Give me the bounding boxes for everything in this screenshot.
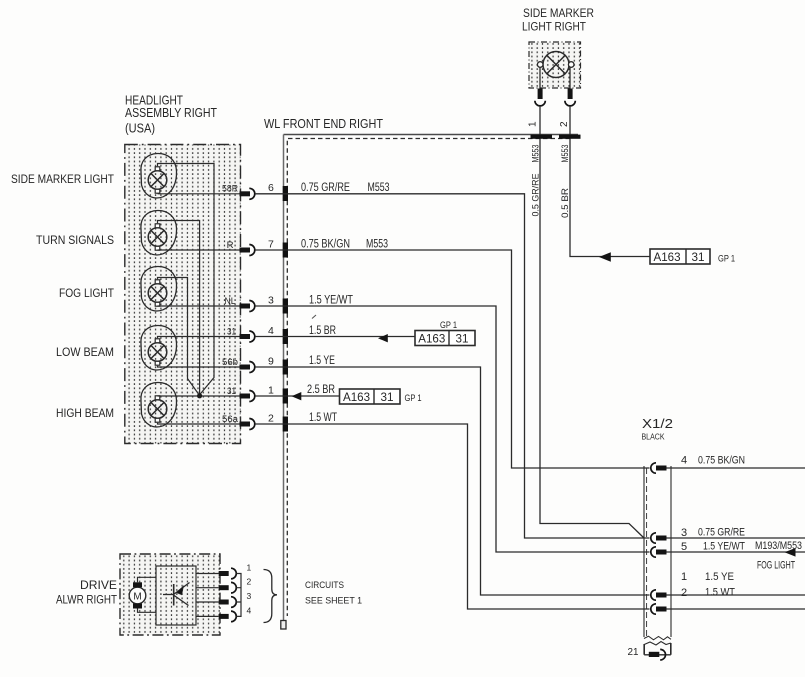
svg-text:WL FRONT END RIGHT: WL FRONT END RIGHT: [264, 117, 383, 131]
wire side marker terminal 1 down: [539, 68, 541, 90]
svg-text:NL: NL: [225, 296, 237, 307]
motor M1: [129, 582, 146, 608]
wire lamp1 top to internal bus: [158, 164, 215, 395]
side marker bulb: [537, 52, 574, 78]
wire side marker terminal 2 down: [569, 68, 571, 90]
svg-text:1: 1: [528, 121, 539, 127]
svg-text:4: 4: [247, 605, 252, 615]
wire X1/2 pin4 out: [667, 467, 805, 469]
drive pin 3 connector: [219, 597, 237, 608]
svg-text:M553: M553: [368, 182, 390, 194]
pin 56a connector: [240, 419, 255, 430]
wire 0.75 GR/RE row6 to X1/2 pin3: [255, 194, 650, 538]
svg-text:1.5 YE: 1.5 YE: [705, 571, 734, 583]
pin R connector: [240, 245, 255, 256]
svg-text:ALWR RIGHT: ALWR RIGHT: [56, 593, 118, 607]
wire drive pin 4: [196, 615, 219, 617]
splice tick M553 wire2: [559, 135, 581, 139]
lamp E2 turn signal bulb: [148, 224, 167, 250]
arrow on row1 wire: [292, 392, 302, 400]
svg-text:1.5 BR: 1.5 BR: [309, 325, 336, 337]
lamp E5 high beam reflector blob: [141, 382, 177, 426]
svg-text:1: 1: [247, 563, 252, 573]
wire X1/2 pin5 out: [667, 551, 805, 553]
lamp E4 low beam reflector blob: [141, 325, 177, 369]
svg-text:X1/2: X1/2: [642, 416, 673, 431]
svg-text:M553: M553: [531, 145, 542, 163]
svg-text:2: 2: [681, 587, 687, 599]
wire lamp4 bottom to pin 56b: [158, 366, 240, 367]
svg-text:3: 3: [681, 527, 687, 539]
svg-text:2: 2: [247, 577, 252, 587]
jumper bracket joining drive pins: [236, 574, 241, 617]
transistor symbol: [163, 583, 190, 606]
X1/2 pin 21 socket: [649, 649, 666, 660]
wire drive pin 2: [196, 587, 219, 589]
svg-text:LOW BEAM: LOW BEAM: [56, 345, 114, 359]
svg-text:1: 1: [681, 571, 687, 583]
svg-text:0.75 BK/GN: 0.75 BK/GN: [698, 455, 745, 467]
arrow on 0.5 BR wire: [599, 252, 611, 262]
svg-text:CIRCUITS: CIRCUITS: [305, 580, 344, 591]
svg-text:58R: 58R: [222, 184, 238, 195]
wire lamp3 bottom to pin NL: [158, 305, 240, 307]
pin 31b connector: [240, 391, 255, 402]
pin NL connector: [240, 301, 255, 312]
svg-text:GP 1: GP 1: [440, 320, 457, 331]
lamp E1 side marker reflector blob: [141, 153, 177, 197]
svg-text:31: 31: [456, 334, 469, 346]
svg-text:1.5 WT: 1.5 WT: [309, 412, 337, 424]
svg-text:FOG LIGHT: FOG LIGHT: [757, 560, 795, 572]
X1/2 pin 2 socket: [651, 604, 667, 614]
svg-text:56a: 56a: [222, 414, 239, 425]
svg-text:31: 31: [227, 327, 236, 338]
X1/2 pin 4 socket: [651, 463, 667, 473]
svg-text:9: 9: [268, 356, 274, 368]
ground box A163 31 row4: [415, 331, 475, 346]
svg-text:31: 31: [692, 252, 705, 264]
svg-text:3: 3: [268, 295, 274, 307]
wire 0.75 BK/GN row7 to X1/2 pin4: [255, 250, 650, 468]
X1/2 pin labels: [681, 455, 802, 600]
pin labels 58R R NL 31 56b 31 56a: [222, 184, 239, 426]
svg-text:HIGH BEAM: HIGH BEAM: [56, 406, 114, 420]
drive pin 4 connector: [219, 611, 237, 622]
connector X1/2 body: [644, 466, 671, 640]
svg-text:R: R: [227, 240, 234, 251]
svg-text:1.5 YE/WT: 1.5 YE/WT: [703, 541, 745, 553]
splice tick M553 wire1: [531, 135, 553, 139]
X1/2 pin 1 socket: [651, 590, 667, 600]
connector X1/2 title: [642, 416, 674, 442]
drive unit box: [120, 554, 220, 635]
svg-text:TURN SIGNALS: TURN SIGNALS: [36, 233, 114, 247]
wire lamp4 top to pin 31: [158, 337, 240, 339]
side marker pin 1 connector: [535, 89, 545, 106]
svg-text:5: 5: [681, 541, 687, 553]
svg-text:1.5 WT: 1.5 WT: [705, 587, 735, 599]
ground box A163 31 row1: [340, 389, 401, 404]
wire lamp3 top to internal bus: [158, 278, 200, 396]
lamp E5 high beam bulb: [148, 396, 167, 422]
svg-text:M193/M553: M193/M553: [755, 540, 802, 552]
circuits note text: [305, 580, 362, 607]
svg-text:31: 31: [381, 392, 394, 404]
wire motor top to control unit: [138, 577, 157, 582]
pin 58R connector: [240, 188, 255, 199]
svg-text:A163: A163: [418, 334, 445, 346]
svg-text:2: 2: [268, 413, 274, 425]
side marker pin 2 connector: [565, 89, 575, 106]
pin 56b connector: [240, 362, 255, 373]
drive pin numbers: [247, 563, 252, 616]
ground box A163 31 side marker: [650, 249, 710, 264]
svg-text:2: 2: [559, 121, 570, 127]
side marker box: [529, 42, 581, 88]
wire X1/2 pin3 out: [667, 537, 805, 539]
svg-text:A163: A163: [654, 252, 681, 264]
wire lamp5 top junction line to pin 31: [158, 395, 240, 397]
svg-text:SIDE MARKER: SIDE MARKER: [523, 8, 594, 20]
svg-text:A163: A163: [343, 392, 370, 404]
wire drive pin 3: [196, 601, 219, 603]
wire X1/2 pin2 out: [667, 608, 805, 610]
svg-text:7: 7: [268, 239, 274, 251]
arrow on row4 wire: [378, 334, 388, 342]
lamp E1 side marker bulb: [148, 167, 167, 193]
junction dot: [197, 393, 202, 398]
wire lamp1 bottom to pin 58R: [158, 193, 240, 195]
wire 1.5 YE/WT row3 to X1/2 pin5: [255, 306, 650, 552]
svg-text:M553: M553: [366, 238, 388, 250]
svg-text:SEE SHEET 1: SEE SHEET 1: [305, 596, 362, 607]
svg-text:4: 4: [268, 325, 274, 337]
drive pin 2 connector: [219, 582, 237, 593]
svg-text:DRIVE: DRIVE: [80, 578, 117, 592]
headlight title text: [125, 94, 217, 136]
svg-text:3: 3: [247, 591, 252, 601]
svg-text:(USA): (USA): [125, 122, 155, 136]
wire lamp5 bottom to pin 56a: [158, 423, 240, 424]
svg-text:M553: M553: [560, 145, 571, 163]
side marker light right title: [522, 8, 594, 34]
svg-text:SIDE MARKER LIGHT: SIDE MARKER LIGHT: [11, 172, 115, 186]
wire 2.5 BR row1 to ground: [255, 395, 340, 397]
svg-text:31: 31: [227, 386, 236, 397]
wire label 0.75 BK/GN M553: [301, 238, 388, 250]
svg-text:6: 6: [268, 182, 274, 194]
connector X1/2 lower fragment: [644, 642, 671, 655]
lamp E3 fog light reflector blob: [141, 266, 177, 310]
svg-text:FOG LIGHT: FOG LIGHT: [59, 286, 115, 300]
lamp E3 fog light bulb: [148, 280, 167, 306]
X1/2 pin 5 socket: [651, 547, 667, 557]
wire label 0.75 GR/RE M553: [301, 182, 390, 194]
harness crossing ticks: [283, 186, 288, 432]
wire lamp2 bottom to pin R: [158, 249, 240, 251]
svg-text:ASSEMBLY RIGHT: ASSEMBLY RIGHT: [125, 106, 217, 120]
wire motor bottom to control unit: [138, 609, 157, 613]
arrow on pin5 wire: [785, 548, 796, 557]
control unit box: [156, 566, 196, 625]
stray mark: [312, 315, 316, 319]
svg-text:1: 1: [268, 385, 274, 397]
svg-text:0.75 GR/RE: 0.75 GR/RE: [698, 526, 745, 538]
connector pin numbers 6 7 3 4 9 1 2: [268, 182, 274, 425]
svg-text:21: 21: [628, 647, 639, 658]
svg-text:1.5 YE: 1.5 YE: [309, 355, 335, 367]
lamp E2 turn signal reflector blob: [141, 210, 177, 254]
pin 31a connector: [240, 331, 255, 342]
svg-text:LIGHT RIGHT: LIGHT RIGHT: [522, 22, 586, 34]
harness boundary end cap: [281, 621, 286, 630]
svg-text:2.5 BR: 2.5 BR: [307, 384, 335, 396]
svg-text:GP 1: GP 1: [405, 393, 422, 404]
svg-text:56b: 56b: [222, 357, 238, 368]
wire 0.5 GR/RE from side marker to X1/2 pin3: [540, 106, 644, 538]
drive alwr right label: [56, 578, 118, 607]
svg-text:BLACK: BLACK: [642, 433, 666, 442]
wire 1.5 BR row4 to ground: [255, 336, 415, 338]
svg-text:GP 1: GP 1: [718, 254, 735, 265]
drive pin 1 connector: [219, 568, 237, 579]
wire 1.5 WT row2 to X1/2 pin2: [255, 424, 650, 609]
svg-text:0.75 GR/RE: 0.75 GR/RE: [301, 182, 350, 194]
harness boundary line outer: [284, 134, 579, 136]
brace to circuits note: [264, 570, 278, 623]
wire X1/2 pin1 out: [667, 594, 805, 596]
wire 1.5 YE row9 to X1/2 pin1: [255, 367, 650, 595]
wire lamp2 top to internal bus: [158, 221, 200, 396]
svg-text:0.5 BR: 0.5 BR: [560, 188, 571, 218]
headlight assembly box: [125, 145, 241, 444]
svg-text:0.75 BK/GN: 0.75 BK/GN: [301, 238, 350, 250]
wire 0.5 BR from side marker to ground: [570, 106, 650, 257]
harness boundary line inner dashed: [287, 139, 570, 617]
svg-text:M: M: [133, 592, 141, 603]
svg-text:4: 4: [681, 455, 687, 467]
X1/2 pin 3 socket: [651, 533, 667, 543]
svg-text:0.5 GR/RE: 0.5 GR/RE: [531, 174, 542, 217]
svg-text:1.5 YE/WT: 1.5 YE/WT: [309, 294, 353, 306]
wire drive pin 1: [196, 573, 219, 575]
lamp E4 low beam bulb: [148, 339, 167, 365]
